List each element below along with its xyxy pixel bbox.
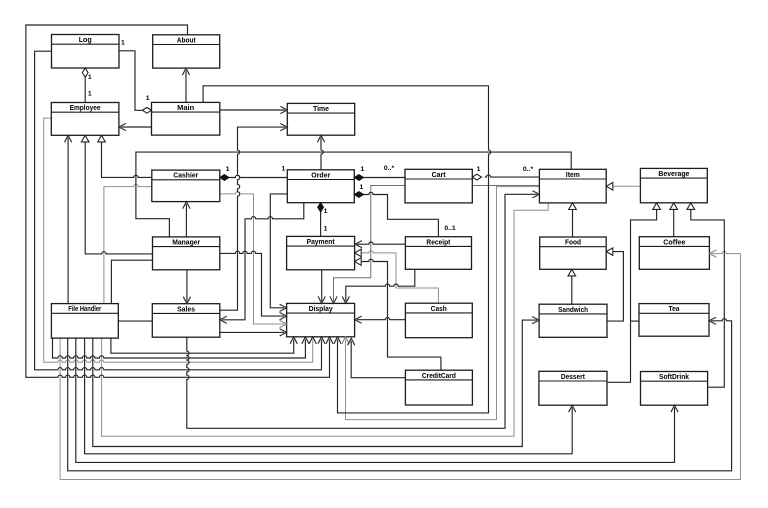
arrowhead Order-Sales [220,316,227,323]
svg-text:About: About [177,35,197,44]
wire Cash-Display arrow [357,318,406,320]
wire Manager-FileHandler route [111,260,152,303]
svg-text:Tea: Tea [669,304,681,313]
triangle Food-Item [569,203,577,210]
class Cashier [152,170,220,202]
svg-text:1: 1 [121,40,125,47]
wire Log-to-Display loop (left) [35,51,322,370]
svg-text:Cash: Cash [431,304,447,313]
triangle Cash-Payment [355,249,362,257]
arrowhead Sales-Item [532,191,539,198]
wire Employee-to-Display loop (left, gray) [44,118,313,362]
arrowhead Order-Display [280,304,287,311]
wire Order-Sales route [222,203,304,320]
svg-text:Employee: Employee [70,103,101,112]
triangle Beverage-Item [606,183,613,191]
triangle Sandwich-Food right [606,248,613,256]
svg-text:Display: Display [309,304,333,313]
wire Main-Time arrow [220,109,285,111]
wire FileHandler-Display route 1 [111,338,294,353]
class Dessert [539,371,607,405]
arrowhead Manager-Display [280,313,287,320]
wire FileHandler-Display route 2 [53,338,306,358]
wire Sales-Display arrow [220,331,284,333]
wire FileHandler-SoftDrink route [76,338,675,462]
svg-text:Coffee: Coffee [663,237,685,246]
diamond Order-Cart composition [354,175,363,181]
svg-text:Sales: Sales [177,304,195,313]
wire Manager-Employee generalization [85,142,152,254]
arrowhead Cashier-Display [280,320,287,327]
wire Tea branch [631,320,640,322]
class About [153,35,220,68]
diamond Order-Receipt composition [354,192,363,198]
svg-text:1: 1 [361,166,365,173]
svg-text:File Handler: File Handler [68,304,101,313]
arrowhead Manager-Cashier [183,202,190,209]
class Coffee [639,237,709,270]
svg-text:1: 1 [146,95,150,102]
class Tea [639,304,709,337]
wire CreditCard-Display route [351,341,405,378]
wire Main-Display route [203,86,491,413]
arrowhead FileHandler-Display 2 [302,337,309,344]
triangle Sandwich-Food top [568,269,576,276]
arrowhead FileHandler-Display 1 [290,337,297,344]
class Log [52,35,120,69]
wire Sales-Time route [220,127,285,310]
wire Main-About arrow [185,71,187,103]
class SoftDrink [641,372,708,406]
wire Item-Display route B (gray) [346,187,540,420]
wire Receipt-Payment arrow [357,242,405,244]
triangle Cashier-Employee [98,135,106,142]
arrowhead FileHandler-SoftDrink [671,405,678,412]
wire Cash-Payment generalization (gray) [362,251,439,304]
class Payment [287,236,355,269]
svg-text:0..*: 0..* [523,166,534,173]
wire FileHandler-Item route (gray) [102,203,549,436]
svg-text:1: 1 [324,208,328,215]
svg-text:0..1: 0..1 [444,225,456,232]
svg-text:Sandwich: Sandwich [558,305,588,314]
wire Coffee-Beverage generalization [673,209,675,236]
wire FileHandler-Dessert route [85,338,573,454]
class File Handler [51,304,118,339]
class Receipt [405,237,471,270]
wire Food-Item generalization [572,209,574,237]
arrowhead Sales-Time [280,124,287,131]
diamond Cart-Item aggregation [472,174,481,180]
svg-text:0..*: 0..* [384,165,395,172]
wire Cashier-Employee generalization [102,142,152,178]
wire Cashier-Display route (gray) [220,192,284,324]
wire Tea-Dessert-Beverage tree [606,209,657,382]
arrowhead Main-Display [334,337,341,344]
svg-text:1: 1 [324,225,328,232]
class Employee [51,103,119,136]
svg-text:Log: Log [79,35,92,44]
wire Beverage-Item generalization (gray) [613,185,641,187]
class Time [287,103,354,135]
wire Cashier-Order composition [229,175,288,177]
diamond Main-Log aggregation [142,107,151,113]
arrowhead Manager-Sales [183,297,190,304]
arrowhead FileHandler-Dessert [569,405,576,412]
wire FileHandler-Tea route [68,319,732,471]
wire FileHandler-Employee arrow [67,138,69,304]
arrowhead Log-Display [318,337,325,344]
class Main [152,102,220,135]
arrowhead Receipt-Display [342,296,349,303]
svg-text:1: 1 [88,74,92,81]
wire SoftDrink-Beverage route [691,209,725,387]
diamond Order-Payment composition [318,203,324,212]
diamond Log-Employee aggregation [82,68,88,77]
arrowhead Order-Time [317,135,324,142]
svg-text:Cart: Cart [432,170,447,179]
svg-text:Receipt: Receipt [426,237,451,246]
class Display [287,303,355,336]
arrowhead CreditCard-Display [348,338,355,345]
wire Order-Payment composition [320,211,322,236]
svg-text:Order: Order [311,170,330,179]
svg-text:Beverage: Beverage [658,169,689,178]
wire Sales-Item route [187,194,537,428]
wire Cart-Item aggregation [485,175,540,177]
wire Order-Cart composition [363,177,405,179]
wire About-to-Display loop (left outer) [26,25,330,377]
arrowhead About-Display [326,337,333,344]
wire Manager-Sales arrow [186,270,188,302]
class Sales [152,304,220,338]
wire Log-Main association [119,51,144,111]
svg-text:1: 1 [226,166,230,173]
svg-text:Food: Food [565,238,581,247]
wire Receipt-Display route [346,269,415,301]
class Item [539,169,606,203]
class Cart [405,169,472,203]
class Sandwich [539,304,607,337]
arrowhead Cash-Display [355,316,362,323]
wire Sandwich-Food generalization [571,276,573,304]
triangle Manager-Employee [81,135,89,142]
arrowhead Item-Display B [342,337,349,344]
triangle Beverage child 2 [670,203,678,210]
wire FileHandler-Coffee route (gray) [60,251,740,479]
class CreditCard [405,370,472,405]
svg-text:1: 1 [88,90,92,97]
wire CreditCard-Payment generalization [362,259,441,370]
svg-text:SoftDrink: SoftDrink [659,372,689,381]
svg-text:1: 1 [282,166,286,173]
wire Item-Display route A [334,186,540,302]
arrowhead Receipt-Payment [355,241,362,248]
wire Manager-Item route [136,152,571,237]
svg-text:Main: Main [177,103,194,112]
class Food [540,237,607,269]
triangle Beverage child 3 [687,203,695,210]
arrowhead Main-Time [280,106,287,113]
arrowhead Employee-Display [309,337,316,344]
svg-text:Payment: Payment [307,237,336,246]
wire Manager-Cashier arrow [185,204,187,237]
wire Order-Receipt route [362,192,438,236]
svg-text:Time: Time [313,104,329,113]
class Cash [405,303,472,338]
wire Main-Employee arrow [121,126,151,128]
wire FileHandler-Sandwich route [93,320,537,446]
wire Cashier-FileHandler route (gray) [104,184,152,303]
svg-text:CreditCard: CreditCard [422,371,456,380]
wire Order-Display route [270,194,287,308]
class Beverage [640,168,707,202]
arrowhead Payment-Display [318,296,325,303]
wire Order-Time arrow [321,138,323,170]
wire Log-Employee aggregation [84,77,86,103]
arrowhead FileHandler-Employee [65,135,72,142]
arrowhead Sales-Display [280,329,287,336]
class Manager [153,237,220,270]
svg-text:1: 1 [477,166,481,173]
class Order [287,170,354,203]
wire Payment-Display arrow [321,270,323,302]
wire FileHandler-Sales association [118,320,152,322]
arrowhead Main-About [182,68,189,75]
svg-text:Dessert: Dessert [561,372,586,381]
svg-text:Item: Item [566,170,580,179]
triangle CreditCard-Payment [355,258,362,266]
wire Sandwich-Food right route [607,252,623,322]
arrowhead Main-Employee [119,123,126,130]
triangle Beverage child 1 [653,203,661,210]
arrowhead FileHandler-Sandwich [532,317,539,324]
arrowhead FileHandler-Tea [709,317,716,324]
diamond Cashier-Order composition [220,175,229,181]
svg-text:Cashier: Cashier [173,171,198,180]
arrowhead Item-Display A [330,296,337,303]
wire Manager-Display route [220,251,284,316]
svg-text:1: 1 [360,184,364,191]
svg-text:Manager: Manager [172,238,200,247]
arrowhead FileHandler-Coffee [709,250,716,257]
